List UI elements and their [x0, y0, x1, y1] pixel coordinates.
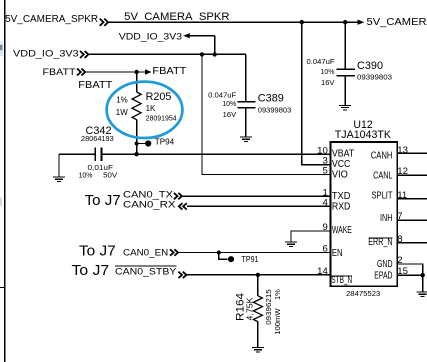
wire VIO branch to pin 5 — [202, 54, 331, 174]
junction VDD at upper branch — [213, 52, 217, 56]
pin 15 EPAD — [374, 266, 408, 281]
junction R205 bottom on VBAT wire — [134, 152, 138, 156]
resistor R164 — [235, 275, 283, 348]
pin 6 EN — [322, 243, 342, 259]
svg-text:1%: 1% — [273, 289, 282, 300]
node FBATT right port (arrow) — [137, 66, 187, 77]
node To J7 CAN0_STBY port — [72, 263, 187, 279]
IC U12 TJA1043TK — [331, 119, 398, 298]
node 5V_CAMERA_SPKR right port (arrow) — [345, 17, 427, 28]
test point TP91 — [217, 251, 259, 265]
svg-text:1%: 1% — [116, 95, 128, 104]
wire EN — [178, 252, 330, 254]
svg-text:VIO: VIO — [332, 169, 348, 180]
svg-text:1W: 1W — [116, 108, 128, 117]
highlight ellipse around R205 — [107, 82, 183, 138]
svg-text:TP94: TP94 — [155, 138, 175, 147]
svg-text:ERR_N: ERR_N — [368, 237, 392, 248]
svg-text:C390: C390 — [357, 60, 383, 72]
wire SPLIT — [397, 198, 427, 200]
wire VCC drop from 5V to pin 3 — [302, 22, 331, 164]
capacitor C342 — [79, 125, 118, 179]
pin 14 STB_N — [317, 266, 352, 286]
pin 3 VCC — [322, 156, 350, 170]
svg-text:RXD: RXD — [332, 201, 351, 212]
test point TP94 — [135, 138, 175, 147]
svg-text:To J7: To J7 — [79, 243, 116, 259]
wire STB_N — [187, 274, 331, 276]
svg-text:16V: 16V — [321, 78, 335, 87]
svg-text:14: 14 — [317, 266, 328, 277]
svg-text:13: 13 — [397, 145, 408, 156]
svg-text:TXD: TXD — [332, 191, 351, 202]
wire to ground — [422, 275, 424, 292]
svg-text:FBATT: FBATT — [152, 66, 186, 77]
svg-text:WAKE: WAKE — [332, 225, 352, 236]
svg-text:C389: C389 — [258, 93, 284, 105]
svg-text:09399803: 09399803 — [357, 72, 392, 81]
svg-text:TJA1043TK: TJA1043TK — [335, 129, 392, 141]
ground at C342 — [53, 154, 65, 181]
svg-text:16V: 16V — [223, 110, 237, 119]
pin 10 VBAT — [317, 145, 354, 159]
svg-text:100mW: 100mW — [273, 307, 282, 334]
wire GND — [397, 264, 423, 275]
node VDD_IO_3V3 left port — [13, 49, 88, 60]
svg-text:INH: INH — [380, 213, 393, 224]
svg-text:To J7: To J7 — [85, 193, 121, 209]
capacitor C389 — [208, 91, 291, 137]
svg-text:GND: GND — [377, 259, 393, 270]
ground at EPAD — [417, 292, 427, 297]
pin 8 ERR_N — [368, 234, 402, 248]
svg-text:VDD_IO_3V3: VDD_IO_3V3 — [13, 49, 79, 60]
wire EPAD — [397, 274, 423, 276]
wire CANL — [397, 174, 427, 176]
svg-text:CAN0_RX: CAN0_RX — [123, 200, 175, 210]
svg-text:0.047uF: 0.047uF — [307, 57, 335, 66]
ground at R164 — [252, 348, 264, 353]
pin 11 SPLIT — [372, 190, 408, 201]
pin 9 WAKE — [322, 222, 352, 236]
pin 7 INH — [380, 211, 403, 224]
pin 4 RXD — [322, 198, 350, 213]
pin 1 TXD — [322, 187, 350, 202]
wire 5V_CAMERA_SPKR — [108, 21, 345, 23]
wire INH — [397, 219, 427, 221]
svg-text:R205: R205 — [146, 91, 172, 103]
resistor R205 — [116, 72, 177, 154]
junction STB_N at R164 — [256, 273, 260, 277]
sheet border line — [4, 0, 6, 362]
node VDD_IO_3V3 upper port (arrow) — [119, 31, 215, 54]
svg-text:4: 4 — [322, 198, 328, 209]
ground for C389 — [240, 137, 252, 142]
node FBATT left port — [43, 67, 86, 78]
svg-text:EPAD: EPAD — [374, 270, 392, 281]
junction FBATT at R205 — [134, 70, 138, 74]
svg-text:CAN0_STBY: CAN0_STBY — [115, 266, 176, 276]
svg-text:5V_CAMERA_SPKR: 5V_CAMERA_SPKR — [124, 11, 230, 23]
svg-text:VDD_IO_3V3: VDD_IO_3V3 — [119, 31, 182, 42]
pin 12 CANL — [373, 166, 408, 182]
svg-text:CANH: CANH — [371, 150, 393, 161]
svg-text:28064193: 28064193 — [81, 134, 114, 143]
svg-text:CAN0_EN: CAN0_EN — [123, 248, 168, 258]
svg-text:SPLIT: SPLIT — [372, 190, 393, 201]
wire C390 drop — [344, 22, 346, 69]
wire VDD_IO_3V3 — [89, 53, 246, 55]
svg-text:5: 5 — [322, 166, 327, 177]
node 5V_CAMERA_SPKR left port — [5, 14, 108, 26]
wire VBAT left segment — [59, 153, 95, 155]
wire VBAT to pin 10 — [102, 153, 331, 155]
capacitor C390 — [307, 57, 393, 105]
pin 13 CANH — [371, 145, 408, 161]
wire RXD — [187, 205, 331, 207]
junction on 5V wire at VCC drop — [300, 20, 304, 24]
node To J7 CAN0_EN port — [79, 243, 178, 259]
svg-text:CANL: CANL — [373, 171, 393, 182]
svg-text:FBATT: FBATT — [78, 80, 112, 91]
svg-text:6: 6 — [322, 243, 327, 254]
node CAN0_RX port (arrow in) — [123, 200, 187, 210]
svg-text:10%: 10% — [79, 170, 93, 179]
svg-text:5V_CAMERA_SPKR: 5V_CAMERA_SPKR — [5, 14, 98, 25]
wire ERR_N — [397, 242, 427, 244]
svg-text:28091954: 28091954 — [146, 113, 177, 122]
svg-text:To J7: To J7 — [72, 263, 110, 279]
wire FBATT — [85, 71, 136, 73]
svg-text:28475523: 28475523 — [346, 289, 380, 298]
svg-text:EN: EN — [332, 248, 343, 259]
pin 2 GND — [377, 255, 403, 270]
svg-text:FBATT: FBATT — [43, 67, 76, 78]
svg-text:09396215: 09396215 — [264, 289, 273, 325]
svg-text:4,75K: 4,75K — [245, 297, 254, 321]
pin 5 VIO — [322, 166, 348, 181]
svg-text:TP91: TP91 — [242, 255, 259, 264]
wire C389 branch — [245, 54, 247, 101]
svg-text:10%: 10% — [321, 67, 335, 76]
svg-text:VBAT: VBAT — [332, 149, 354, 160]
junction GND/EPAD — [421, 273, 425, 277]
wire WAKE to ground — [291, 231, 331, 242]
ground at WAKE — [285, 242, 297, 247]
svg-text:10%: 10% — [222, 99, 236, 108]
svg-text:50V: 50V — [103, 170, 117, 179]
wire CANH — [397, 152, 427, 154]
node To J7 CAN0_TX port — [85, 189, 182, 208]
svg-text:1K: 1K — [146, 104, 156, 113]
junction on 5V wire at C390 drop — [343, 20, 347, 24]
svg-text:09399803: 09399803 — [258, 106, 292, 115]
svg-text:CAN0_TX: CAN0_TX — [123, 189, 173, 199]
ground for C390 — [339, 105, 351, 110]
svg-text:5V_CAMERA_SPKR: 5V_CAMERA_SPKR — [367, 17, 427, 28]
wire TXD — [182, 195, 330, 197]
junction VDD at VIO branch — [200, 52, 204, 56]
